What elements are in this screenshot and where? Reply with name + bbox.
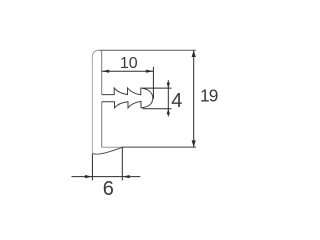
- dim 19 top arrowhead: [192, 50, 196, 57]
- dim 10 right extension line: [152, 67, 154, 99]
- dim 4 upper arrowhead: [167, 83, 170, 89]
- svg-text:19: 19: [200, 86, 218, 106]
- dim 6 left extension line: [91, 154, 93, 180]
- barbed leg upper outline: [102, 88, 153, 98]
- dim 6 right extension line: [121, 147, 123, 180]
- dim 19 bottom arrowhead: [192, 140, 196, 147]
- svg-text:10: 10: [120, 55, 138, 72]
- dim 4 bottom extension line: [143, 108, 172, 110]
- svg-text:4: 4: [171, 90, 182, 112]
- foot top edge (part): [102, 146, 122, 148]
- profile inner wall lower segment: [101, 102, 103, 148]
- dim 6 left arrowhead: [85, 175, 93, 178]
- dim 4 lower arrowhead: [167, 109, 170, 115]
- dim 6 right arrowhead: [122, 175, 130, 178]
- dim 10 left arrowhead: [102, 70, 110, 73]
- dim 19 dimension line: [193, 50, 195, 147]
- bottom extension line for dim 19: [122, 146, 196, 148]
- barbed leg lower outline: [102, 98, 153, 108]
- dim 4 dimension line: [167, 80, 169, 116]
- profile inner wall upper segment: [101, 50, 103, 94]
- profile top-left fillet: [92, 50, 99, 57]
- profile top edge + top extension line for dim 19: [99, 49, 196, 51]
- profile outer left wall: [91, 57, 93, 154]
- svg-text:6: 6: [103, 178, 114, 200]
- dim 10 dimension line: [102, 70, 154, 72]
- dim 10 right arrowhead: [146, 70, 154, 73]
- dim 4 top extension line: [143, 87, 172, 89]
- dim 6 dimension line: [72, 176, 141, 178]
- foot bottom curved edge: [92, 147, 122, 154]
